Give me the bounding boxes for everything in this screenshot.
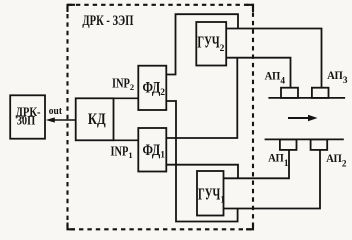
block AP3 (312, 88, 329, 98)
block AP2 (311, 139, 328, 150)
wire FD1 upper to AP4 net (166, 58, 237, 138)
block FD2 (138, 66, 166, 110)
wire GUCh1 to AP2 (224, 150, 321, 209)
block GUCh2 (196, 22, 226, 66)
block FD1 (138, 128, 166, 172)
block KD (76, 98, 114, 140)
motion arrow (288, 115, 318, 122)
wire GUCh2 to AP4 (226, 58, 290, 88)
wire FD2 lower loop under GUCh1 (166, 101, 237, 222)
block GUCh1 (197, 171, 225, 216)
wire out arrow from KD to DRK-30P (46, 117, 76, 122)
wire INP1 (114, 139, 139, 141)
wire FD1 lower to AP1 net (166, 165, 238, 179)
svg-text:ДРК - ЗЭП: ДРК - ЗЭП (82, 13, 133, 29)
wire GUCh1 to AP1 (224, 150, 290, 178)
block DRK-30P (10, 95, 45, 138)
dashed enclosure DRK-3EP (68, 5, 254, 230)
dashed box corner ticks (68, 5, 76, 12)
svg-text:out: out (49, 105, 62, 117)
wire GUCh2 to AP3 (226, 29, 321, 88)
block AP4 (281, 88, 298, 98)
bottom antenna ground line (265, 138, 344, 140)
block AP1 (280, 139, 297, 150)
svg-text:КД: КД (88, 111, 106, 128)
top antenna ground line (268, 97, 345, 99)
svg-text:30П: 30П (17, 114, 36, 128)
wire FD2 upper loop over GUCh2 (166, 14, 238, 74)
wire INP2 (114, 97, 139, 99)
